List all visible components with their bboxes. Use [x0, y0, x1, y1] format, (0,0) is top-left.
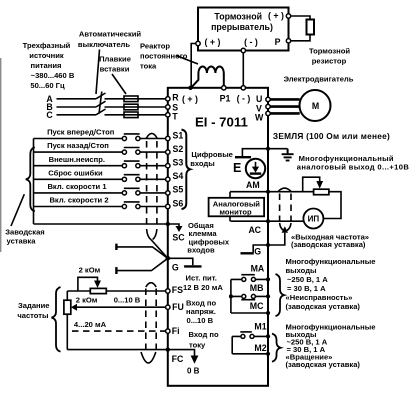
svg-text:12 В 20 мА: 12 В 20 мА — [183, 283, 223, 292]
svg-text:выходы: выходы — [286, 266, 317, 275]
analog cable dashed sides — [146, 289, 156, 352]
fuse F3 — [124, 112, 138, 118]
relay outputs text 1 — [286, 257, 376, 311]
stub bar 1 — [116, 244, 167, 259]
G junction (right) — [266, 243, 270, 247]
svg-text:ЗЕМЛЯ (100 Ом или менее): ЗЕМЛЯ (100 Ом или менее) — [273, 131, 390, 141]
svg-text:резистор: резистор — [312, 57, 347, 66]
terminal descriptions left-bottom — [183, 274, 223, 350]
meter cable dashed sides — [280, 194, 291, 223]
svg-text:~250 В, 1 А: ~250 В, 1 А — [287, 275, 328, 284]
0V arrow — [168, 350, 200, 376]
svg-text:S1: S1 — [173, 130, 184, 140]
digital inputs label — [190, 150, 233, 168]
svg-text:(заводская уставка): (заводская уставка) — [286, 302, 361, 311]
svg-text:ИП: ИП — [308, 215, 320, 224]
MA MB MC terminals — [266, 277, 270, 315]
fuse F2 — [124, 104, 138, 110]
left rail of input block — [33, 139, 35, 225]
svg-text:Плавкие: Плавкие — [99, 55, 131, 64]
S5 row wire + switch — [34, 188, 171, 195]
svg-text:М2: М2 — [254, 343, 266, 353]
phase A wire — [57, 98, 166, 100]
fuse F1 — [124, 96, 138, 102]
svg-text:М: М — [312, 101, 319, 111]
svg-text:Ист. пит.: Ист. пит. — [186, 274, 217, 283]
potentiometer R1 (horizontal) — [78, 277, 106, 293]
wire chopper(-) to drive(-) — [242, 53, 244, 88]
svg-text:G: G — [254, 247, 261, 257]
meter cable bottom pinch — [280, 223, 291, 231]
drive top terminal (-) — [237, 86, 251, 104]
svg-text:Вход по: Вход по — [189, 330, 219, 339]
svg-text:50...60 Гц: 50...60 Гц — [30, 81, 65, 90]
FS wire — [67, 290, 165, 292]
SC common wire — [34, 223, 167, 225]
terminal W — [266, 111, 270, 115]
M2 wire — [232, 353, 268, 355]
svg-text:аналоговый выход 0...+10В: аналоговый выход 0...+10В — [297, 163, 410, 172]
AC junction — [266, 219, 270, 223]
S6 row wire + switch — [34, 202, 171, 209]
G stub (right) — [241, 245, 269, 253]
chopper terminal P right — [286, 39, 290, 43]
R S T labels — [172, 92, 179, 121]
svg-text:( - ): ( - ) — [244, 37, 258, 47]
relay outputs brace 1 — [276, 274, 285, 316]
svg-text:АС: АС — [249, 225, 262, 235]
output potentiometer — [303, 177, 329, 195]
svg-text:( + ): ( + ) — [182, 94, 198, 104]
earth ground symbol — [282, 149, 294, 161]
terminal S — [166, 105, 170, 109]
svg-text:( + ): ( + ) — [268, 10, 284, 20]
MC wire — [231, 312, 268, 314]
svg-text:S6: S6 — [173, 198, 184, 208]
relay left rail — [230, 279, 232, 313]
brake resistor — [307, 20, 351, 66]
relay outputs brace 2 — [272, 334, 281, 362]
svg-text:S5: S5 — [173, 185, 184, 195]
svg-text:Пуск назад/Стоп: Пуск назад/Стоп — [47, 141, 109, 150]
scan edge artifact — [0, 58, 2, 252]
S2 row wire + switch — [34, 148, 171, 155]
svg-text:М1: М1 — [254, 321, 266, 331]
E stub bar — [235, 156, 251, 158]
motor M — [300, 90, 331, 121]
svg-text:МВ: МВ — [250, 283, 264, 293]
svg-text:Многофункциональные: Многофункциональные — [286, 257, 376, 266]
input row labels — [47, 128, 115, 205]
frequency set label — [17, 301, 49, 320]
shield drain arrow — [268, 226, 288, 245]
phase C wire — [57, 114, 166, 116]
svg-text:FU: FU — [172, 302, 184, 312]
breaker Q1 blades — [96, 92, 106, 115]
G stub (left) — [168, 258, 202, 266]
svg-text:уставка: уставка — [7, 237, 37, 246]
svg-text:FC: FC — [172, 354, 184, 364]
svg-text:R: R — [172, 92, 179, 102]
svg-text:Цифровые: Цифровые — [191, 150, 233, 159]
terminal FI — [166, 329, 170, 333]
svg-text:МА: МА — [251, 264, 265, 274]
svg-text:SC: SC — [172, 233, 185, 243]
S1 row wire + switch — [34, 134, 171, 141]
svg-text:напряж.: напряж. — [186, 307, 216, 316]
svg-text:выключатель: выключатель — [78, 40, 130, 49]
svg-text:входы: входы — [190, 159, 215, 168]
svg-text:МС: МС — [250, 301, 264, 311]
wire to earth — [268, 148, 288, 150]
AM junction — [266, 190, 270, 194]
svg-text:G: G — [172, 263, 179, 273]
reactor label — [140, 42, 198, 71]
svg-text:тока: тока — [140, 62, 157, 71]
relay MA contact — [231, 275, 268, 282]
digital cable dashed sides — [147, 141, 157, 229]
svg-text:FS: FS — [172, 285, 183, 295]
svg-text:Задание: Задание — [18, 301, 50, 310]
S4 row wire + switch — [34, 175, 171, 182]
svg-text:P1: P1 — [220, 94, 231, 104]
svg-text:S4: S4 — [173, 171, 184, 181]
svg-text:2 кОм: 2 кОм — [79, 266, 101, 275]
digital inputs brace — [182, 130, 191, 210]
circuit breaker label — [78, 30, 142, 95]
digital cable bottom pinch — [147, 229, 157, 240]
ground node junction — [266, 147, 270, 151]
IP meter — [303, 209, 323, 229]
wire to E shield stub — [242, 149, 268, 156]
output frequency note — [291, 233, 369, 250]
terminal V — [266, 104, 270, 108]
FI dashed wire — [72, 330, 166, 332]
svg-text:( - ): ( - ) — [237, 94, 251, 104]
svg-text:~380...460 В: ~380...460 В — [31, 71, 75, 80]
wire pot to IP meter — [323, 192, 341, 219]
frequency set brace — [52, 287, 61, 352]
svg-text:Внешн.неиспр.: Внешн.неиспр. — [49, 155, 105, 164]
svg-text:С: С — [46, 110, 53, 120]
FS FU Fi FC labels — [172, 285, 184, 364]
svg-text:частоты: частоты — [17, 311, 48, 320]
svg-text:Электродвигатель: Электродвигатель — [284, 75, 354, 84]
M1-M2 rail — [231, 336, 233, 353]
U V W labels — [255, 94, 264, 123]
M1 M2 terminals — [266, 334, 270, 356]
svg-text:T: T — [172, 112, 178, 122]
SC arrow — [168, 224, 183, 232]
svg-text:монитор: монитор — [219, 208, 252, 217]
G node junction (left) — [166, 256, 171, 261]
svg-text:Вкл. скорости 1: Вкл. скорости 1 — [47, 182, 107, 191]
svg-text:источник: источник — [29, 51, 64, 60]
svg-text:Пуск вперед/Стоп: Пуск вперед/Стоп — [47, 128, 115, 137]
stub bar 2 — [116, 258, 167, 274]
S3 row wire + switch — [34, 161, 171, 168]
terminal FS — [166, 289, 170, 293]
digital cable shield top arc — [146, 133, 157, 138]
M1 M2 labels — [254, 321, 266, 353]
AM wire to potentiometer — [230, 191, 314, 193]
chopper terminal (-) bottom — [241, 48, 245, 52]
svg-text:0...10 В: 0...10 В — [114, 296, 141, 305]
svg-text:питания: питания — [31, 61, 62, 70]
drive top terminal (+) — [182, 86, 198, 104]
svg-text:Вкл. скорости 2: Вкл. скорости 2 — [49, 196, 108, 205]
relay outputs text 2 — [286, 323, 376, 370]
terminal FU — [166, 305, 170, 309]
svg-text:E: E — [233, 161, 241, 175]
fuses label — [99, 55, 131, 95]
analog output label — [297, 154, 410, 172]
analog cable shield arc — [146, 283, 156, 287]
FC junction — [166, 347, 170, 351]
meter cable shield arc — [278, 188, 291, 192]
svg-text:EI - 7011: EI - 7011 — [195, 115, 248, 130]
drive top terminal P1 — [220, 86, 231, 104]
svg-text:току: току — [189, 340, 206, 349]
svg-text:0 В: 0 В — [187, 367, 200, 376]
MA MB MC labels — [250, 264, 265, 311]
relay M1 contact — [232, 332, 268, 339]
svg-text:постоянного: постоянного — [140, 52, 188, 61]
braking chopper box — [198, 8, 289, 51]
terminal T — [166, 113, 170, 117]
AC wire — [231, 220, 304, 222]
svg-text:Трехфазный: Трехфазный — [23, 41, 71, 50]
svg-text:S3: S3 — [173, 158, 184, 168]
relay MB contact — [229, 294, 268, 299]
factory setting label — [5, 194, 45, 245]
potentiometer R2 (vertical) — [64, 291, 71, 350]
svg-text:(заводская уставка): (заводская уставка) — [291, 240, 366, 249]
brake resistor wires — [289, 16, 311, 41]
svg-text:0...10 В: 0...10 В — [187, 316, 214, 325]
svg-text:= 30 В, 1 А: = 30 В, 1 А — [287, 284, 326, 293]
svg-text:W: W — [255, 113, 264, 123]
chopper terminal (+) left — [196, 41, 200, 45]
SC junction — [166, 222, 170, 226]
wire chopper(+) to drive(+) — [191, 44, 196, 89]
svg-text:S2: S2 — [173, 144, 184, 154]
motor wires U V W — [270, 99, 300, 113]
svg-text:2 кОм: 2 кОм — [76, 296, 98, 305]
svg-text:прерыватель): прерыватель) — [211, 22, 273, 32]
analog cable bottom arc — [141, 352, 156, 363]
shield drain to G node — [151, 240, 168, 259]
three-phase source label — [23, 41, 75, 90]
svg-text:вставки: вставки — [100, 65, 130, 74]
analog monitor box — [209, 192, 265, 222]
svg-text:P: P — [275, 37, 281, 47]
svg-text:Тормозной: Тормозной — [309, 47, 350, 56]
svg-text:Fi: Fi — [172, 326, 180, 336]
inverter main box EI-7011 — [168, 88, 268, 386]
phase B wire — [57, 106, 166, 108]
terminal R — [166, 97, 170, 101]
chopper terminal (+) top right — [286, 14, 290, 18]
FC wire — [67, 349, 166, 351]
svg-text:входов: входов — [187, 245, 215, 254]
svg-text:( + ): ( + ) — [205, 37, 221, 47]
svg-text:Сброс ошибки: Сброс ошибки — [48, 168, 103, 177]
factory setting brace (inputs) — [26, 147, 35, 211]
svg-text:«Неисправность»: «Неисправность» — [286, 293, 353, 302]
E earth icon circle — [246, 159, 265, 178]
svg-text:Тормозной: Тормозной — [214, 11, 262, 21]
svg-text:Реактор: Реактор — [140, 42, 170, 51]
svg-text:Заводская: Заводская — [5, 228, 45, 237]
SC description — [187, 221, 230, 254]
svg-text:4...20 мА: 4...20 мА — [74, 320, 107, 329]
svg-text:(заводская уставка): (заводская уставка) — [286, 360, 361, 369]
DC reactor coil — [191, 67, 224, 88]
FU wiper arrow + wire — [71, 304, 166, 311]
S1-S6 terminal labels — [173, 130, 184, 208]
terminal U — [266, 97, 270, 101]
svg-text:Автоматический: Автоматический — [79, 30, 142, 39]
svg-text:AM: AM — [246, 180, 260, 190]
